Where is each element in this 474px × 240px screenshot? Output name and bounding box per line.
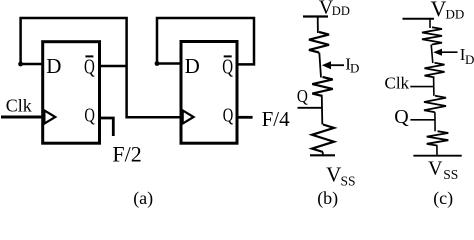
wire: FF2 Qbar feedback loop to D <box>157 18 254 64</box>
wire R2 to R3 (c) <box>433 77 435 96</box>
svg-text:Q: Q <box>84 55 95 79</box>
D flip-flop FF2 <box>181 42 237 144</box>
svg-text:D: D <box>350 61 359 76</box>
svg-text:V: V <box>428 158 443 180</box>
wire Q node (c) <box>410 119 435 121</box>
VSS supply bar (b) <box>310 154 335 156</box>
svg-text:V: V <box>431 0 447 21</box>
wire: FF2 Q output <box>237 116 253 119</box>
current arrow ID (c) <box>433 49 442 56</box>
resistor R1 (b) <box>309 32 329 53</box>
resistor R3 (c) <box>424 96 446 112</box>
resistor R4 (c) <box>427 131 449 145</box>
current arrow tail (c) <box>441 51 458 53</box>
junction dot at FF1 D node <box>18 62 23 67</box>
VSS supply bar (c) <box>413 155 461 157</box>
svg-text:F/2: F/2 <box>112 142 141 167</box>
svg-text:(c): (c) <box>433 188 453 209</box>
wire VDD to R1 (b) <box>317 17 319 34</box>
wire: FF1 Qbar feedback loop to D and on to FF2 clock <box>21 18 181 117</box>
svg-text:Clk: Clk <box>385 74 410 93</box>
resistor R1 (c) <box>422 27 442 44</box>
svg-text:Q: Q <box>222 55 233 79</box>
svg-text:D: D <box>465 52 474 67</box>
resistor R2 (b) <box>312 77 332 96</box>
svg-text:(a): (a) <box>133 188 153 209</box>
svg-text:DD: DD <box>332 4 350 18</box>
wire R3 to VSS (b) <box>322 152 324 155</box>
resistor R3 (b) <box>312 125 334 153</box>
svg-text:D: D <box>185 54 200 78</box>
wire Clk node (c) <box>410 86 434 88</box>
wire R1 to R2 (b) <box>319 53 321 78</box>
svg-text:F/4: F/4 <box>262 107 291 131</box>
wire R3 to R4 (c) <box>434 112 436 131</box>
current arrow ID (b) <box>322 61 331 69</box>
current arrow tail (b) <box>330 64 344 66</box>
svg-text:D: D <box>46 54 61 78</box>
junction dot at FF2 D node <box>155 61 160 66</box>
svg-text:Q: Q <box>223 104 234 126</box>
svg-text:Clk: Clk <box>6 96 32 116</box>
FF2 clock triangle <box>183 110 194 123</box>
svg-text:SS: SS <box>443 167 458 182</box>
wire VDD to R1 (c) <box>429 19 431 28</box>
D flip-flop FF1 <box>43 42 100 144</box>
wire R4 to VSS (c) <box>436 146 438 156</box>
wire R2 to R3 (b) <box>321 96 324 125</box>
wire: FF1 Q output to F/2 <box>100 118 114 136</box>
VDD supply bar (b) <box>303 15 328 17</box>
VDD supply bar (c) <box>403 18 435 20</box>
svg-text:SS: SS <box>341 173 356 188</box>
FF1 Qbar overline <box>85 55 93 57</box>
svg-text:DD: DD <box>446 7 465 22</box>
resistor R2 (c) <box>425 63 445 78</box>
wire: FF1 Qbar output to loop <box>100 65 127 68</box>
FF2 Qbar overline <box>224 55 232 57</box>
svg-text:Q: Q <box>394 106 409 128</box>
svg-text:(b): (b) <box>317 188 338 209</box>
svg-text:V: V <box>326 163 341 187</box>
svg-text:Q: Q <box>84 104 95 126</box>
wire: Clk input <box>1 116 43 119</box>
svg-text:Q: Q <box>297 86 308 106</box>
wire Q node (b) <box>298 107 322 109</box>
FF1 clock triangle <box>44 110 55 123</box>
wire R1 to R2 (c) <box>431 45 433 64</box>
